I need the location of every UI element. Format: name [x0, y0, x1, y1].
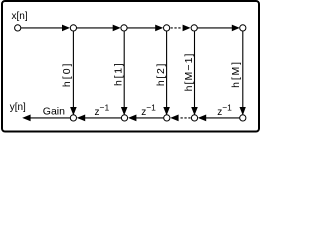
- wire: S3 to S2: [136, 117, 164, 119]
- tap wire h[1]: [123, 31, 125, 107]
- arrowhead into sum S1: [77, 115, 85, 122]
- arrowhead into node N6: [232, 25, 240, 32]
- svg-text:h[2]: h[2]: [155, 62, 167, 86]
- wire: N5 to N6: [197, 27, 232, 29]
- frame border: [2, 1, 259, 132]
- svg-text:h[1]: h[1]: [112, 62, 124, 86]
- svg-text:y[n]: y[n]: [10, 102, 26, 113]
- arrowhead into node N4: [155, 25, 163, 32]
- input node x[n]: [15, 25, 21, 31]
- tap wire h[M]: [242, 31, 244, 107]
- dashed wire S4 to arrowhead: [181, 117, 192, 119]
- arrowhead of tap h[2] into sum node: [163, 107, 170, 115]
- node N4: [164, 25, 170, 31]
- svg-text:x[n]: x[n]: [12, 11, 28, 22]
- svg-text:h[M−1]: h[M−1]: [183, 52, 195, 91]
- arrowhead into sum S2: [128, 115, 136, 122]
- wire: S5 to S4: [206, 117, 240, 119]
- arrowhead into node N5: [183, 25, 191, 32]
- svg-text:h[M]: h[M]: [230, 60, 242, 88]
- sum node S3: [164, 115, 170, 121]
- svg-text:h[0]: h[0]: [61, 62, 73, 88]
- arrowhead of tap h[1] into sum node: [121, 107, 128, 115]
- node N6: [240, 25, 246, 31]
- tap wire h[M-1]: [194, 31, 196, 107]
- dotted wire after N4: [171, 27, 183, 29]
- arrowhead into sum S3: [170, 115, 178, 122]
- arrowhead into node N3: [113, 25, 121, 32]
- arrowhead of tap h[M] into sum node: [240, 107, 246, 115]
- sum node S5: [240, 115, 246, 121]
- sum node S1: [70, 115, 76, 121]
- wire: N2 to N3: [77, 27, 114, 29]
- sum node S4: [191, 115, 197, 121]
- wire: S2 to S1: [85, 117, 122, 119]
- arrowhead of tap h[0] into sum node: [70, 107, 77, 115]
- wire: N3 to N4: [127, 27, 156, 29]
- sum node S2: [121, 115, 127, 121]
- node N5: [191, 25, 197, 31]
- tap wire h[0]: [72, 31, 74, 107]
- arrowhead of tap h[M-1] into sum node: [191, 107, 198, 115]
- node N2: [70, 25, 76, 31]
- tap wire h[2]: [166, 31, 168, 107]
- node N3: [121, 25, 127, 31]
- svg-text:Gain: Gain: [43, 105, 65, 117]
- arrowhead into node N2: [62, 25, 70, 32]
- arrowhead into sum S4: [198, 115, 206, 122]
- output arrowhead y[n]: [22, 115, 30, 122]
- wire: sum S1 to output: [30, 117, 70, 119]
- wire: x[n] node to first tap: [21, 27, 63, 29]
